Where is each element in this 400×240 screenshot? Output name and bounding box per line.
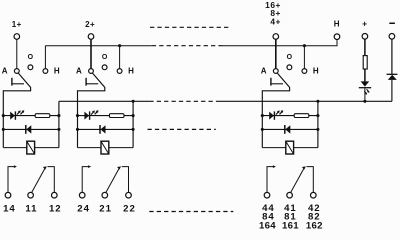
NO contact 2 — [82, 167, 89, 193]
selector arm 2 — [78, 73, 105, 148]
svg-text:+: + — [362, 19, 367, 29]
svg-text:12: 12 — [49, 203, 62, 214]
relay coil K3 — [286, 141, 294, 154]
svg-text:22: 22 — [123, 203, 136, 214]
svg-text:H: H — [313, 66, 319, 75]
resistor R3 — [294, 114, 309, 118]
continuation dashes (more coil inputs) — [150, 26, 231, 28]
contact terminal 11 — [28, 192, 34, 198]
wire — [391, 39, 393, 74]
svg-text:161: 161 — [282, 220, 299, 231]
junction — [2, 128, 5, 131]
junction — [261, 114, 264, 117]
wire — [109, 147, 133, 149]
wire — [78, 147, 102, 149]
wire — [3, 128, 59, 130]
NC contact 2 — [122, 167, 129, 193]
H bus continuation (dashed) — [152, 45, 223, 47]
continuation dashes (more contact pins) — [149, 211, 233, 213]
svg-text:A: A — [2, 66, 8, 75]
junction — [316, 114, 319, 117]
LED D1a — [10, 112, 15, 120]
diode D2b (suppressor) — [99, 125, 101, 134]
wire — [364, 88, 366, 101]
wire — [90, 39, 92, 68]
armature link K1 — [11, 78, 13, 86]
wire — [336, 40, 338, 46]
contact terminal 24 — [79, 192, 85, 198]
wire — [58, 101, 60, 147]
movable contact arm 1 — [32, 168, 46, 193]
wire — [294, 147, 318, 149]
svg-text:162: 162 — [306, 220, 323, 231]
diode D− (reverse polarity) — [387, 73, 398, 75]
junction — [57, 128, 60, 131]
junction on H bus — [118, 44, 121, 47]
wire — [317, 101, 319, 147]
movable contact arm 3 — [291, 168, 305, 193]
negative bus wire — [218, 100, 392, 102]
junction on H bus — [303, 44, 306, 47]
contact H1 (solder option H) — [43, 69, 48, 74]
diode D3b (suppressor) — [284, 125, 286, 134]
selector arm 3 — [262, 73, 289, 148]
contact O2 (solder option O) — [102, 65, 107, 70]
svg-text:H: H — [54, 66, 60, 75]
contact A1 (solder option A) — [14, 69, 19, 74]
contact O1 (solder option O) — [28, 65, 33, 70]
wire — [78, 115, 134, 117]
contact terminal 22 — [126, 192, 132, 198]
contact terminal 41 — [287, 192, 293, 198]
wire — [262, 147, 286, 149]
wire — [262, 128, 318, 130]
junction — [2, 114, 5, 117]
wire — [16, 39, 18, 68]
terminal − — [389, 34, 395, 40]
terminal 16+/8+/4+ (coil + input 3) — [273, 34, 279, 40]
contact O3 (solder option O) — [287, 65, 292, 70]
junction on negative bus — [363, 100, 366, 103]
contact terminal 14 — [5, 192, 11, 198]
terminal 1+ (coil + input 1) — [14, 34, 20, 40]
svg-text:2+: 2+ — [85, 20, 95, 29]
junction on negative bus — [132, 100, 135, 103]
resistor R2 — [109, 114, 124, 118]
wire — [364, 39, 366, 55]
armature link K3 — [270, 78, 272, 86]
LED D+ (power indicator) — [361, 81, 370, 86]
wire — [3, 147, 27, 149]
svg-text:21: 21 — [99, 203, 112, 214]
resistor R+ — [363, 56, 367, 69]
LED D2a — [84, 112, 89, 120]
junction — [76, 114, 79, 117]
H bus wire — [223, 40, 338, 46]
junction — [261, 128, 264, 131]
contact terminal 42 — [311, 192, 317, 198]
junction — [76, 128, 79, 131]
junction — [57, 114, 60, 117]
svg-text:4+: 4+ — [270, 17, 281, 27]
continuation dashes (more modules) — [148, 128, 216, 130]
NC contact 1 — [48, 167, 55, 193]
net label − — [389, 23, 395, 25]
wire — [132, 101, 134, 147]
wire — [303, 46, 305, 69]
svg-text:A: A — [76, 66, 82, 75]
resistor R1 — [35, 114, 50, 118]
wire — [3, 115, 59, 117]
junction on negative bus — [316, 100, 319, 103]
wire — [391, 80, 393, 102]
junction — [316, 128, 319, 131]
terminal + — [362, 34, 368, 40]
svg-text:1+: 1+ — [12, 20, 22, 29]
svg-text:A: A — [261, 66, 267, 75]
contact terminal 44 — [264, 192, 270, 198]
H bus wire — [45, 45, 151, 47]
contact H2 (solder option H) — [117, 69, 122, 74]
wire — [364, 69, 366, 82]
svg-text:11: 11 — [25, 203, 37, 214]
wire — [78, 128, 134, 130]
svg-text:H: H — [334, 20, 340, 29]
negative bus wire — [59, 100, 149, 102]
svg-text:O: O — [287, 54, 293, 61]
LED D3a — [269, 112, 274, 120]
svg-text:H: H — [128, 66, 134, 75]
NC contact 3 — [307, 167, 314, 193]
junction — [132, 128, 135, 131]
contact A2 (solder option A) — [89, 69, 94, 74]
svg-text:24: 24 — [77, 203, 90, 214]
selector arm 1 — [3, 73, 30, 148]
junction — [132, 114, 135, 117]
svg-text:164: 164 — [259, 220, 276, 231]
NO contact 3 — [267, 167, 274, 193]
contact A3 (solder option A) — [273, 69, 278, 74]
relay coil K2 — [101, 141, 109, 154]
armature link K2 — [85, 78, 87, 86]
wire — [262, 115, 318, 117]
contact terminal 12 — [52, 192, 58, 198]
relay coil K1 — [27, 141, 35, 154]
wire — [35, 147, 59, 149]
contact terminal 21 — [102, 192, 108, 198]
terminal H — [334, 34, 340, 40]
negative bus continuation (dashed) — [149, 100, 217, 102]
wire — [119, 46, 121, 69]
svg-text:O: O — [102, 54, 108, 61]
terminal 2+ (coil + input 2) — [88, 34, 94, 40]
NO contact 1 — [8, 167, 15, 193]
diode D1b (suppressor) — [25, 125, 27, 134]
contact H3 (solder option H) — [302, 69, 307, 74]
svg-text:14: 14 — [3, 203, 16, 214]
wire — [44, 46, 46, 69]
wire — [275, 39, 277, 68]
svg-text:O: O — [28, 54, 34, 61]
movable contact arm 2 — [106, 168, 120, 193]
